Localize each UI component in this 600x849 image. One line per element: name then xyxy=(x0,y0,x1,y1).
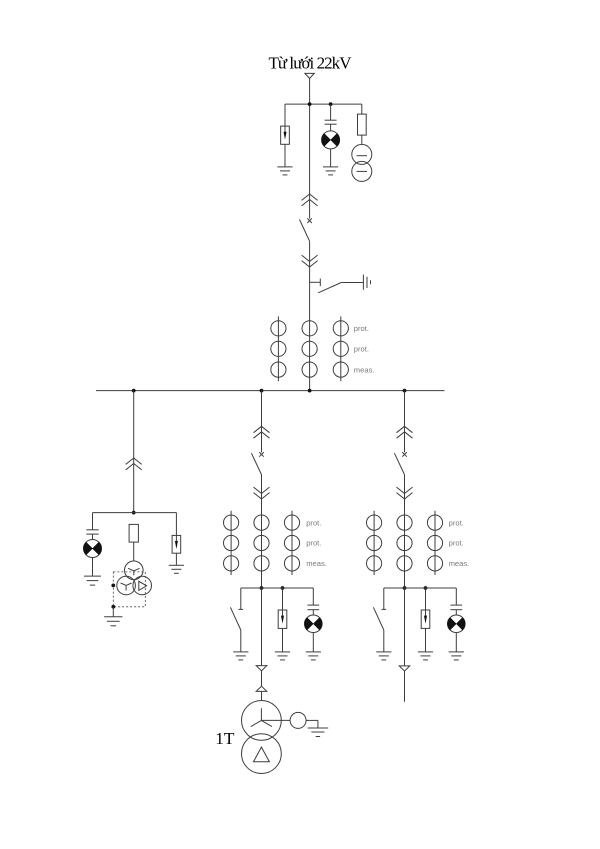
svg-text:meas.: meas. xyxy=(354,365,375,374)
svg-text:meas.: meas. xyxy=(306,559,327,568)
svg-text:prot.: prot. xyxy=(354,345,369,354)
svg-text:prot.: prot. xyxy=(449,518,464,527)
svg-text:prot.: prot. xyxy=(449,539,464,548)
svg-text:prot.: prot. xyxy=(306,539,321,548)
svg-text:1T: 1T xyxy=(215,729,235,748)
svg-text:meas.: meas. xyxy=(449,559,470,568)
svg-text:Từ lưới 22kV: Từ lưới 22kV xyxy=(268,53,352,72)
svg-text:prot.: prot. xyxy=(306,518,321,527)
svg-text:prot.: prot. xyxy=(354,324,369,333)
